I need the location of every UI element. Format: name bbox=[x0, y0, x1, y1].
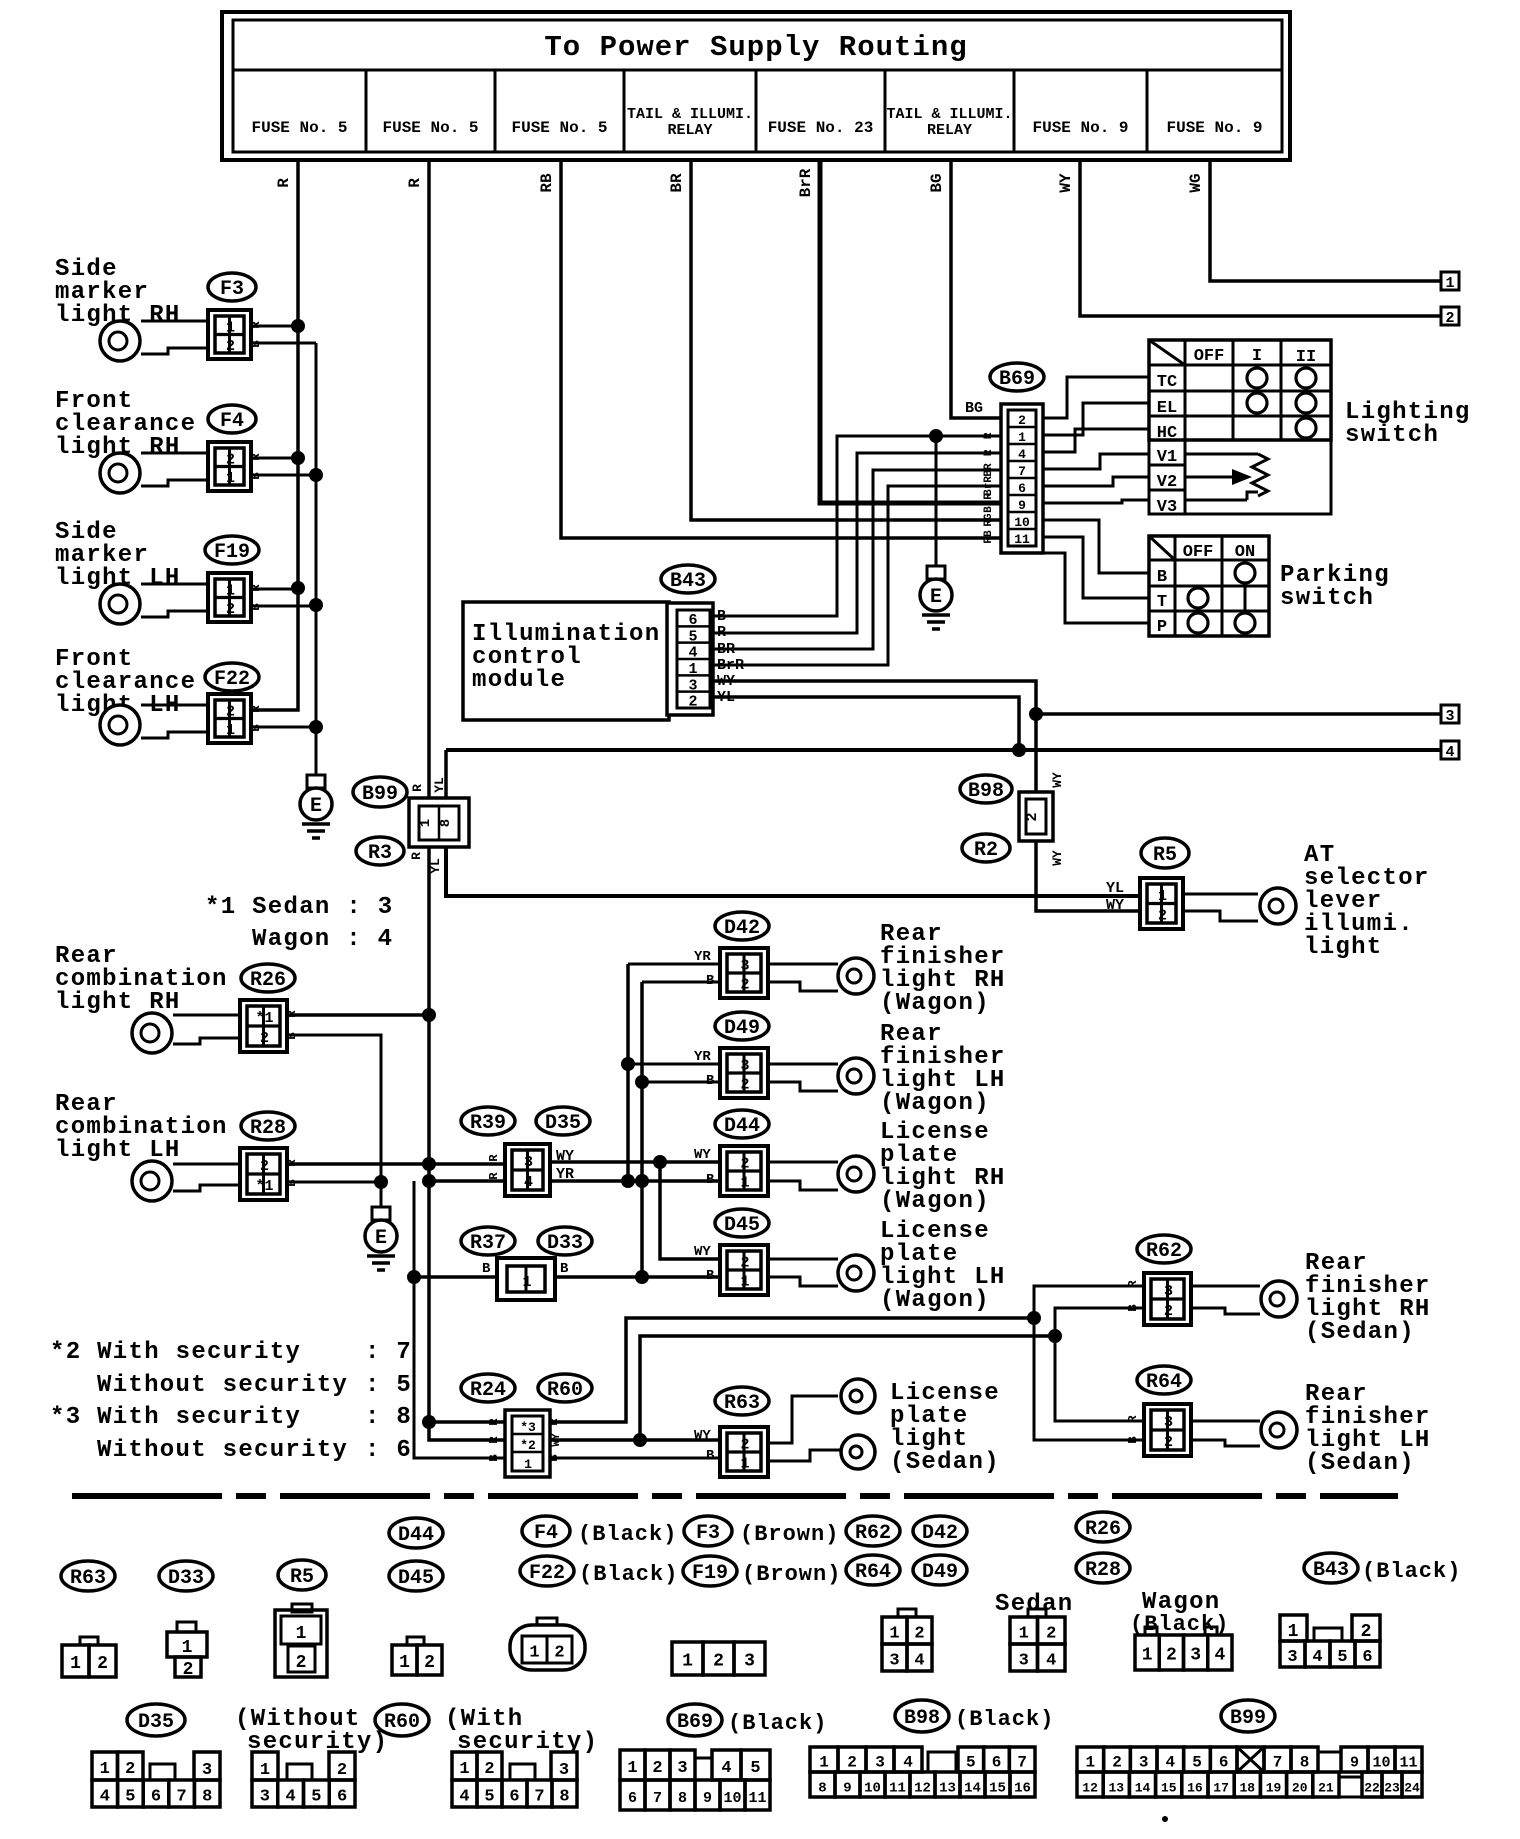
connector D44 pinout ref bbox=[389, 1518, 443, 1548]
connector F22 ref bbox=[205, 663, 259, 691]
svg-text:13: 13 bbox=[939, 1781, 956, 1797]
svg-text:3: 3 bbox=[1190, 1646, 1201, 1666]
wire R bus branch to R24 pin1 bbox=[429, 1420, 505, 1424]
svg-text:*1 Sedan : 3: *1 Sedan : 3 bbox=[205, 894, 393, 921]
svg-text:OFF: OFF bbox=[1194, 347, 1225, 366]
connector R63 bbox=[720, 1427, 768, 1477]
wire B43 WY to terminal3 / B98 bbox=[713, 681, 1036, 794]
connector D35 ref bbox=[127, 1704, 185, 1736]
bulb F4 lamp bbox=[141, 452, 208, 455]
wire YL B99 lower to R5 bbox=[446, 843, 1140, 896]
svg-text:1: 1 bbox=[627, 1759, 637, 1778]
svg-text:4: 4 bbox=[524, 1174, 533, 1191]
svg-text:B43: B43 bbox=[1313, 1559, 1349, 1582]
wire to R64 pin2 bbox=[1034, 1318, 1144, 1440]
svg-text:4: 4 bbox=[1018, 447, 1026, 462]
svg-text:6: 6 bbox=[509, 1788, 519, 1807]
svg-text:2: 2 bbox=[740, 977, 749, 994]
connector R24/R60 bbox=[505, 1410, 550, 1477]
svg-text:WY: WY bbox=[1050, 772, 1065, 788]
svg-text:: 5: : 5 bbox=[365, 1372, 412, 1399]
connector B43 pinout ref bbox=[1304, 1553, 1358, 1583]
svg-text:R: R bbox=[406, 178, 424, 188]
svg-text:2: 2 bbox=[125, 1760, 135, 1779]
svg-text:(Black): (Black) bbox=[1362, 1559, 1461, 1584]
svg-text:5: 5 bbox=[125, 1788, 135, 1807]
svg-text:R: R bbox=[487, 1154, 501, 1162]
svg-text:(Wagon): (Wagon) bbox=[880, 1188, 990, 1215]
svg-text:6: 6 bbox=[151, 1788, 161, 1807]
svg-text:6: 6 bbox=[1219, 1754, 1229, 1772]
svg-text:R63: R63 bbox=[70, 1567, 106, 1590]
svg-text:2: 2 bbox=[226, 451, 235, 468]
parking switch contacts bbox=[1235, 563, 1255, 583]
svg-text:B69: B69 bbox=[677, 1711, 713, 1734]
svg-text:YR: YR bbox=[694, 1049, 711, 1065]
svg-text:TAIL & ILLUMI.: TAIL & ILLUMI. bbox=[886, 106, 1012, 123]
svg-text:3: 3 bbox=[677, 1759, 687, 1778]
svg-text:4: 4 bbox=[721, 1759, 731, 1778]
svg-text:R2: R2 bbox=[974, 839, 998, 862]
connector B43 pinout bbox=[1280, 1615, 1307, 1641]
illumination control module box bbox=[463, 602, 669, 720]
connector R62 bbox=[1144, 1273, 1191, 1325]
svg-text:D35: D35 bbox=[138, 1711, 174, 1734]
wire F19 pin1 to R bus bbox=[251, 588, 298, 591]
connector B43 ref bbox=[661, 565, 715, 593]
connector R39/D35 bbox=[505, 1144, 550, 1196]
svg-text:10: 10 bbox=[864, 1781, 881, 1797]
svg-text:R24: R24 bbox=[470, 1379, 506, 1402]
svg-text:6: 6 bbox=[688, 612, 697, 629]
svg-text:18: 18 bbox=[1239, 1781, 1255, 1796]
svg-text:R: R bbox=[410, 784, 425, 792]
svg-text:V3: V3 bbox=[1157, 498, 1177, 517]
svg-text:2: 2 bbox=[1046, 1625, 1056, 1644]
svg-text:light RH: light RH bbox=[55, 989, 181, 1016]
svg-text:WG: WG bbox=[1187, 173, 1205, 192]
svg-text:B69: B69 bbox=[999, 368, 1035, 391]
svg-text:21: 21 bbox=[1318, 1781, 1334, 1796]
svg-text:16: 16 bbox=[1014, 1781, 1031, 1797]
wire YR/B row R39 to D44 bbox=[550, 1179, 720, 1183]
svg-text:B98: B98 bbox=[968, 780, 1004, 803]
svg-text:16: 16 bbox=[1187, 1781, 1203, 1796]
svg-text:8: 8 bbox=[1300, 1754, 1310, 1772]
connector R64 ref bbox=[1137, 1366, 1191, 1394]
parking switch table bbox=[1149, 536, 1269, 636]
svg-text:F3: F3 bbox=[696, 1522, 720, 1545]
connector R62/R64 pinout bbox=[898, 1609, 916, 1617]
svg-text:OFF: OFF bbox=[1183, 543, 1214, 562]
svg-text:1: 1 bbox=[1018, 430, 1026, 445]
svg-text:WY: WY bbox=[1050, 850, 1065, 866]
bulb AT selector lamp bbox=[1183, 893, 1258, 896]
connector F22 bbox=[208, 694, 251, 743]
svg-text:2: 2 bbox=[1164, 1303, 1173, 1320]
svg-text:Sedan: Sedan bbox=[995, 1591, 1074, 1618]
svg-text:F3: F3 bbox=[220, 278, 244, 301]
separator chain line bbox=[72, 1493, 1398, 1499]
svg-text:2: 2 bbox=[847, 1754, 857, 1772]
svg-text:1: 1 bbox=[524, 1457, 532, 1472]
svg-text:B: B bbox=[1157, 568, 1167, 587]
svg-text:*1: *1 bbox=[255, 1010, 273, 1027]
svg-text:F22: F22 bbox=[529, 1562, 565, 1585]
connector B69 pinout grid bbox=[620, 1750, 645, 1780]
svg-text:R: R bbox=[1126, 1415, 1140, 1423]
svg-text:: 8: : 8 bbox=[365, 1404, 412, 1431]
wire YR riser bbox=[626, 964, 630, 1181]
wire R24 B output to R63 bbox=[550, 1457, 720, 1460]
svg-text:2: 2 bbox=[226, 338, 235, 355]
svg-text:10: 10 bbox=[723, 1790, 741, 1807]
connector B43 bbox=[667, 603, 713, 715]
svg-text:3: 3 bbox=[889, 1652, 899, 1671]
svg-text:R: R bbox=[487, 1172, 501, 1180]
wire B riser to R24 bbox=[414, 1181, 505, 1458]
wire F19 pin2 to ground chain bbox=[251, 605, 316, 608]
wire R24 WY output to R63 bbox=[550, 1438, 720, 1442]
svg-text:2: 2 bbox=[914, 1625, 924, 1644]
junction dots on R bus (left lights) bbox=[291, 319, 305, 333]
svg-text:F19: F19 bbox=[214, 541, 250, 564]
svg-text:3: 3 bbox=[740, 958, 749, 975]
wire R fuse1 drop bbox=[251, 158, 298, 710]
svg-text:3: 3 bbox=[1445, 708, 1454, 725]
svg-text:(Wagon): (Wagon) bbox=[880, 1287, 990, 1314]
connector R63 pinout ref bbox=[61, 1561, 115, 1591]
svg-text:E: E bbox=[930, 586, 942, 609]
svg-text:1: 1 bbox=[399, 1653, 410, 1673]
svg-text:FUSE No. 5: FUSE No. 5 bbox=[251, 119, 347, 137]
svg-text:R62: R62 bbox=[1146, 1240, 1182, 1263]
wire WY riser to D45 bbox=[660, 1162, 720, 1259]
wire R28 pin2 to ground bbox=[287, 1181, 381, 1184]
terminal 4 bbox=[1441, 741, 1459, 759]
bulb R28 lamp bbox=[173, 1163, 240, 1166]
svg-text:1: 1 bbox=[688, 661, 697, 678]
svg-text:module: module bbox=[472, 667, 566, 694]
svg-text:F4: F4 bbox=[534, 1522, 558, 1545]
svg-text:7: 7 bbox=[1017, 1754, 1027, 1772]
svg-text:12: 12 bbox=[914, 1781, 931, 1797]
wire R fuse2 main bus bbox=[429, 158, 505, 1440]
svg-text:light LH: light LH bbox=[55, 1137, 181, 1164]
svg-text:1: 1 bbox=[889, 1625, 899, 1644]
wire B69 to lighting switch V2 bbox=[1043, 477, 1149, 486]
svg-text:D42: D42 bbox=[724, 917, 760, 940]
connector R62 ref bbox=[1137, 1235, 1191, 1263]
svg-text:BrR: BrR bbox=[983, 476, 995, 496]
wire BrR drop to B69 (thick) bbox=[820, 158, 1001, 503]
connector D35 ref bbox=[536, 1107, 590, 1135]
svg-text:R60: R60 bbox=[384, 1711, 420, 1734]
svg-text:(Brown): (Brown) bbox=[740, 1522, 839, 1547]
wire to R64 pin1 bbox=[1055, 1336, 1144, 1421]
svg-text:WY: WY bbox=[1106, 897, 1124, 914]
connector R26 ref bbox=[241, 964, 295, 992]
svg-text:6: 6 bbox=[1018, 481, 1026, 496]
wire WY R39 to D44 bbox=[550, 1160, 720, 1164]
connector R5 pinout bbox=[292, 1604, 312, 1612]
svg-text:7: 7 bbox=[534, 1788, 544, 1807]
wire to R62 pin2 bbox=[1055, 1308, 1144, 1336]
svg-text:14: 14 bbox=[964, 1781, 981, 1797]
svg-text:17: 17 bbox=[1213, 1781, 1229, 1796]
svg-text:10: 10 bbox=[1372, 1755, 1390, 1772]
connector R2 ref bbox=[962, 834, 1010, 862]
svg-text:8: 8 bbox=[818, 1781, 826, 1797]
connector F4 ref bbox=[208, 405, 256, 433]
svg-text:Wagon : 4: Wagon : 4 bbox=[252, 926, 393, 953]
svg-text:1: 1 bbox=[418, 819, 434, 827]
svg-text:2: 2 bbox=[1112, 1754, 1122, 1772]
svg-text:4: 4 bbox=[688, 645, 697, 662]
svg-text:T: T bbox=[1157, 593, 1167, 612]
svg-text:3: 3 bbox=[1164, 1414, 1173, 1431]
ground chain wire left bbox=[315, 343, 318, 775]
svg-text:2: 2 bbox=[740, 1156, 749, 1173]
svg-text:(Black): (Black) bbox=[955, 1707, 1054, 1732]
svg-text:YL: YL bbox=[432, 777, 447, 793]
svg-text:B: B bbox=[706, 1073, 715, 1089]
connector R39 ref bbox=[461, 1107, 515, 1135]
svg-text:B: B bbox=[249, 340, 263, 347]
svg-text:BR: BR bbox=[983, 463, 995, 477]
wire B to D49 bbox=[642, 1081, 720, 1084]
connector B99 pinout grid bbox=[1077, 1747, 1104, 1772]
svg-text:FUSE No. 5: FUSE No. 5 bbox=[382, 119, 478, 137]
svg-text:1: 1 bbox=[1086, 1754, 1096, 1772]
wire R28 pin1 to R bus and R39 bbox=[287, 1162, 505, 1166]
svg-text:R5: R5 bbox=[1153, 844, 1177, 867]
svg-text:R: R bbox=[249, 321, 263, 329]
svg-text:1: 1 bbox=[1019, 1625, 1029, 1644]
rheostat in lighting switch bbox=[1185, 453, 1258, 456]
connector R64 pinout ref bbox=[846, 1555, 900, 1585]
svg-text:4: 4 bbox=[1445, 744, 1454, 761]
wire B69 to lighting switch V1 bbox=[1043, 454, 1149, 469]
wire B69 to lighting switch V3 bbox=[1043, 500, 1149, 503]
terminal 3 bbox=[1441, 705, 1459, 723]
svg-text:R: R bbox=[249, 584, 263, 592]
wire WG drop to terminal 1 bbox=[1210, 158, 1441, 281]
svg-text:6: 6 bbox=[1362, 1648, 1372, 1667]
ground E left lights bbox=[307, 775, 325, 788]
svg-text:22: 22 bbox=[1364, 1781, 1380, 1796]
svg-text:R: R bbox=[487, 1418, 501, 1426]
svg-text:FUSE No. 5: FUSE No. 5 bbox=[511, 119, 607, 137]
connector R37/D33 inline bbox=[497, 1258, 555, 1300]
connector D42 pinout ref bbox=[913, 1516, 967, 1546]
svg-text:R39: R39 bbox=[470, 1112, 506, 1135]
svg-text:D35: D35 bbox=[545, 1112, 581, 1135]
svg-text:F19: F19 bbox=[692, 1562, 728, 1585]
svg-text:3: 3 bbox=[1019, 1652, 1029, 1671]
bulb F3 lamp bbox=[141, 320, 208, 323]
svg-text:2: 2 bbox=[484, 1760, 494, 1779]
connector R63 pinout bbox=[80, 1637, 98, 1645]
svg-text:4: 4 bbox=[100, 1788, 110, 1807]
svg-text:1: 1 bbox=[740, 1456, 749, 1473]
wire B long run D33/D45 bbox=[414, 1275, 720, 1279]
svg-text:9: 9 bbox=[843, 1781, 851, 1797]
connector R28 ref bbox=[241, 1112, 295, 1140]
connector R5 pinout ref bbox=[278, 1560, 326, 1590]
svg-text:*1: *1 bbox=[255, 1178, 273, 1195]
svg-text:E: E bbox=[375, 1227, 387, 1250]
svg-text:B: B bbox=[706, 1268, 715, 1284]
connector R28 pinout ref bbox=[1076, 1553, 1130, 1583]
ground E rear combination bbox=[372, 1207, 390, 1220]
bulb F22 lamp bbox=[141, 704, 208, 707]
wire R26 pin2 to ground bbox=[287, 1035, 381, 1207]
svg-text:6: 6 bbox=[992, 1754, 1002, 1772]
connector B99 pinout ref bbox=[1221, 1700, 1275, 1732]
svg-text:2: 2 bbox=[1158, 907, 1167, 924]
connector R26 pinout ref bbox=[1076, 1512, 1130, 1542]
svg-text:1: 1 bbox=[1142, 1646, 1153, 1666]
connector D45 bbox=[720, 1245, 768, 1295]
wire RB drop to B69 bbox=[561, 158, 1001, 538]
svg-text:2: 2 bbox=[652, 1759, 662, 1778]
svg-text:B43: B43 bbox=[670, 570, 706, 593]
wire B43 BrR to B69 bbox=[713, 486, 1001, 665]
svg-text:3: 3 bbox=[744, 1652, 755, 1672]
svg-text:(Wagon): (Wagon) bbox=[880, 990, 990, 1017]
svg-text:switch: switch bbox=[1345, 422, 1439, 449]
svg-text:D44: D44 bbox=[724, 1115, 760, 1138]
svg-text:EL: EL bbox=[1157, 399, 1177, 418]
svg-text:YR: YR bbox=[694, 949, 711, 965]
connector B98 pinout grid bbox=[810, 1747, 838, 1772]
svg-text:2: 2 bbox=[1361, 1622, 1372, 1642]
svg-text:(Sedan): (Sedan) bbox=[890, 1449, 1000, 1476]
svg-text:1: 1 bbox=[819, 1754, 829, 1772]
bulb D44 lamp bbox=[768, 1161, 838, 1164]
svg-text:BG: BG bbox=[965, 400, 983, 417]
svg-text:R: R bbox=[249, 705, 263, 713]
bulb R63 lamp2 bbox=[768, 1450, 840, 1461]
connector F3/F19 pinout bbox=[672, 1642, 703, 1675]
svg-text:1: 1 bbox=[70, 1654, 81, 1674]
svg-text:Without security: Without security bbox=[97, 1372, 348, 1399]
svg-text:13: 13 bbox=[1108, 1781, 1124, 1796]
svg-text:1: 1 bbox=[529, 1644, 539, 1663]
bulb D49 lamp bbox=[768, 1063, 838, 1066]
bulb D42 lamp bbox=[768, 963, 838, 966]
svg-text:1: 1 bbox=[1288, 1622, 1299, 1642]
wire long YL run B99 to terminal4 bbox=[446, 748, 1441, 752]
svg-text:2: 2 bbox=[713, 1652, 724, 1672]
svg-text:1: 1 bbox=[459, 1760, 469, 1779]
svg-text:D42: D42 bbox=[922, 1522, 958, 1545]
svg-text:R: R bbox=[1126, 1280, 1140, 1288]
terminal 2 bbox=[1441, 307, 1459, 325]
connector B69 ref bbox=[990, 363, 1044, 391]
connector D33 ref bbox=[538, 1227, 592, 1255]
svg-text:1: 1 bbox=[1158, 888, 1167, 905]
svg-text:7: 7 bbox=[1018, 464, 1026, 479]
svg-text:2: 2 bbox=[296, 1653, 307, 1673]
svg-text:WY: WY bbox=[694, 1244, 711, 1260]
svg-text:FUSE No. 9: FUSE No. 9 bbox=[1166, 119, 1262, 137]
svg-text:1: 1 bbox=[100, 1760, 110, 1779]
connector R5 bbox=[1140, 878, 1183, 929]
svg-text:II: II bbox=[1296, 348, 1316, 367]
lighting switch V1 V2 V3 cells bbox=[1149, 440, 1185, 514]
connector R26/R28 sedan pinout bbox=[1028, 1609, 1046, 1617]
svg-text:5: 5 bbox=[1337, 1648, 1347, 1667]
connector F19 ref bbox=[205, 536, 259, 564]
connector D44/D45 pinout bbox=[407, 1637, 424, 1645]
wire B69 to lighting switch TC bbox=[1043, 377, 1149, 418]
svg-text:23: 23 bbox=[1384, 1781, 1400, 1796]
svg-text:BR: BR bbox=[668, 173, 686, 193]
svg-text:*2: *2 bbox=[520, 1438, 536, 1453]
wire B69 to parking switch B bbox=[1043, 520, 1149, 573]
bulb R63 lamp1 bbox=[768, 1396, 838, 1443]
svg-text:8: 8 bbox=[202, 1788, 212, 1807]
svg-text:(Wagon): (Wagon) bbox=[880, 1090, 990, 1117]
connector R64 bbox=[1144, 1404, 1191, 1456]
svg-text:7: 7 bbox=[1273, 1754, 1283, 1772]
bulb F19 lamp bbox=[141, 583, 208, 586]
connector D35 pinout bbox=[92, 1752, 118, 1780]
svg-text:D45: D45 bbox=[724, 1214, 760, 1237]
svg-text:4: 4 bbox=[914, 1652, 924, 1671]
svg-text:10: 10 bbox=[1014, 515, 1030, 530]
svg-text:B: B bbox=[1126, 1304, 1140, 1311]
svg-text:(Black): (Black) bbox=[578, 1522, 677, 1547]
svg-text:3: 3 bbox=[1164, 1283, 1173, 1300]
svg-text:15: 15 bbox=[1161, 1781, 1177, 1796]
svg-text:5: 5 bbox=[1192, 1754, 1202, 1772]
wire F3 pin1 to R bus bbox=[251, 325, 298, 328]
svg-text:2: 2 bbox=[226, 601, 235, 618]
svg-text:4: 4 bbox=[1312, 1648, 1322, 1667]
wire YR to D49 bbox=[628, 1063, 720, 1066]
svg-text:R64: R64 bbox=[1146, 1371, 1182, 1394]
connector B69 bbox=[1001, 404, 1043, 553]
stray mark bbox=[1162, 1816, 1168, 1822]
svg-text:5: 5 bbox=[966, 1754, 976, 1772]
connector R60 ref bbox=[375, 1704, 429, 1736]
svg-text:3: 3 bbox=[260, 1788, 270, 1807]
svg-text:D49: D49 bbox=[724, 1017, 760, 1040]
svg-text:19: 19 bbox=[1266, 1781, 1282, 1796]
svg-text:YL: YL bbox=[1106, 880, 1124, 897]
connector D45 ref bbox=[715, 1209, 769, 1237]
lighting switch lower box bbox=[1185, 440, 1331, 514]
connector R63 ref bbox=[715, 1387, 769, 1415]
svg-text:D33: D33 bbox=[168, 1567, 204, 1590]
svg-text:R: R bbox=[249, 453, 263, 461]
svg-text:3: 3 bbox=[1139, 1754, 1149, 1772]
svg-text:1: 1 bbox=[260, 1761, 270, 1780]
svg-text:: 7: : 7 bbox=[365, 1339, 412, 1366]
wire B69 to parking switch P bbox=[1043, 553, 1149, 623]
wire F22 pin2 to ground chain bbox=[251, 726, 316, 729]
svg-text:F22: F22 bbox=[214, 668, 250, 691]
wire WY drop to terminal 2 bbox=[1080, 158, 1441, 316]
svg-text:3: 3 bbox=[524, 1154, 533, 1171]
svg-text:*3: *3 bbox=[520, 1420, 536, 1435]
connector B98/R2 inline bbox=[1019, 792, 1053, 841]
svg-text:1: 1 bbox=[182, 1638, 193, 1658]
svg-text:B99: B99 bbox=[1230, 1707, 1266, 1730]
